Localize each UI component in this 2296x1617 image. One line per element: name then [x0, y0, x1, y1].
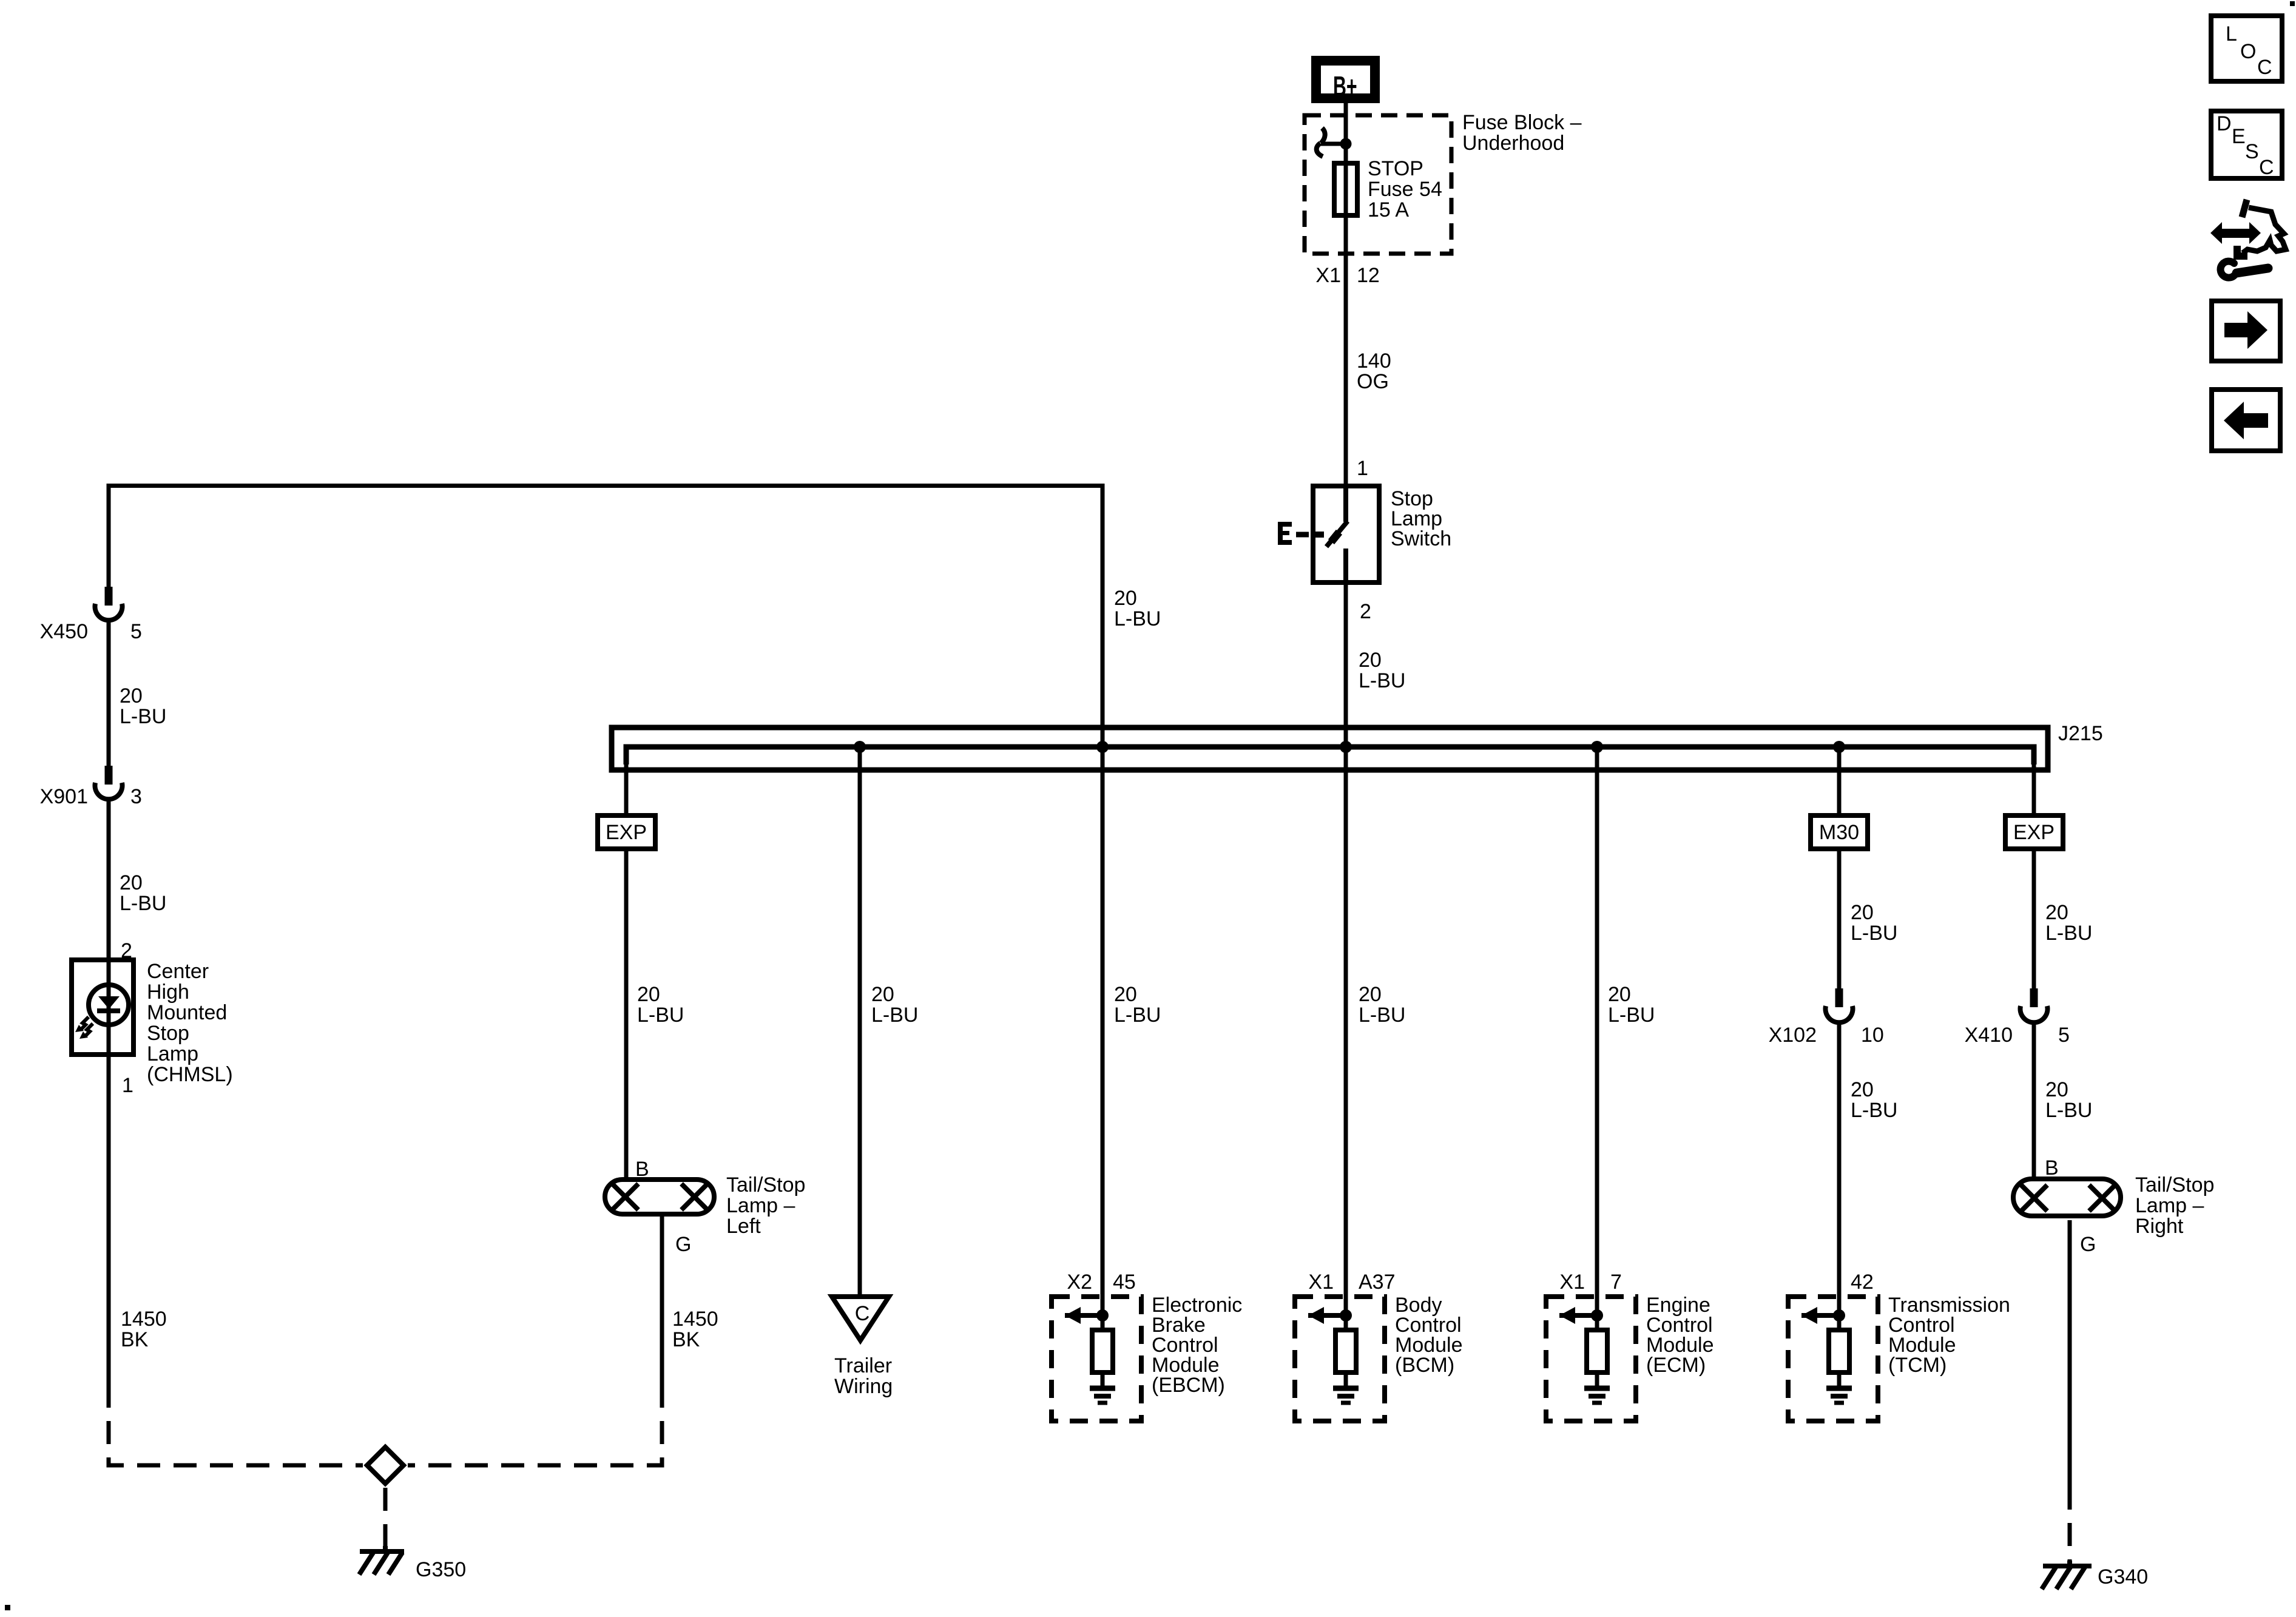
- svg-text:STOP: STOP: [1368, 157, 1423, 180]
- svg-text:L-BU: L-BU: [1851, 922, 1897, 945]
- svg-text:20: 20: [1608, 983, 1631, 1006]
- svg-text:(EBCM): (EBCM): [1152, 1374, 1225, 1397]
- svg-text:X102: X102: [1769, 1024, 1817, 1047]
- svg-text:L-BU: L-BU: [1114, 607, 1161, 630]
- svg-text:45: 45: [1113, 1271, 1136, 1294]
- svg-text:L-BU: L-BU: [2045, 1099, 2092, 1122]
- svg-text:C: C: [2257, 56, 2272, 79]
- svg-text:2: 2: [121, 939, 132, 962]
- svg-text:Left: Left: [726, 1215, 761, 1238]
- svg-text:L-BU: L-BU: [871, 1004, 918, 1027]
- svg-text:140: 140: [1357, 349, 1391, 373]
- svg-text:C: C: [855, 1302, 870, 1325]
- svg-text:O: O: [2240, 40, 2256, 63]
- svg-text:20: 20: [637, 983, 660, 1006]
- svg-text:(ECM): (ECM): [1646, 1354, 1706, 1377]
- svg-text:Fuse 54: Fuse 54: [1368, 178, 1442, 201]
- svg-text:G350: G350: [416, 1558, 466, 1581]
- svg-text:G340: G340: [2098, 1565, 2148, 1588]
- svg-text:X410: X410: [1965, 1024, 2013, 1047]
- svg-text:1450: 1450: [121, 1308, 167, 1331]
- svg-text:Mounted: Mounted: [147, 1001, 227, 1024]
- svg-text:EXP: EXP: [606, 821, 647, 844]
- svg-text:5: 5: [130, 620, 142, 643]
- svg-text:15 A: 15 A: [1368, 198, 1409, 221]
- svg-text:A37: A37: [1359, 1271, 1396, 1294]
- svg-text:L-BU: L-BU: [1359, 669, 1405, 692]
- svg-text:X901: X901: [40, 785, 88, 808]
- svg-text:3: 3: [130, 785, 142, 808]
- svg-text:X1: X1: [1315, 264, 1341, 287]
- svg-text:20: 20: [120, 684, 143, 707]
- svg-text:20: 20: [120, 871, 143, 894]
- svg-text:L-BU: L-BU: [1359, 1004, 1405, 1027]
- svg-text:20: 20: [2045, 901, 2068, 924]
- svg-text:E: E: [2232, 125, 2246, 148]
- svg-text:X450: X450: [40, 620, 88, 643]
- svg-text:7: 7: [1610, 1271, 1622, 1294]
- svg-text:20: 20: [1359, 983, 1382, 1006]
- svg-text:20: 20: [1114, 983, 1137, 1006]
- svg-text:S: S: [2245, 140, 2259, 163]
- svg-text:B+: B+: [1333, 72, 1357, 103]
- svg-text:5: 5: [2058, 1024, 2070, 1047]
- svg-text:Lamp: Lamp: [147, 1042, 198, 1065]
- svg-text:BK: BK: [121, 1328, 149, 1351]
- svg-text:D: D: [2217, 112, 2232, 135]
- svg-text:20: 20: [1851, 901, 1874, 924]
- svg-text:C: C: [2259, 156, 2274, 179]
- svg-text:Trailer: Trailer: [834, 1354, 892, 1377]
- svg-text:Center: Center: [147, 960, 209, 983]
- svg-text:(TCM): (TCM): [1888, 1354, 1947, 1377]
- svg-text:L-BU: L-BU: [120, 705, 166, 728]
- svg-text:L-BU: L-BU: [1608, 1004, 1655, 1027]
- svg-text:(BCM): (BCM): [1395, 1354, 1454, 1377]
- svg-text:B: B: [2045, 1156, 2059, 1180]
- svg-text:M30: M30: [1819, 821, 1859, 844]
- svg-text:Tail/Stop: Tail/Stop: [726, 1173, 805, 1197]
- svg-text:20: 20: [2045, 1078, 2068, 1101]
- svg-text:EXP: EXP: [2013, 821, 2055, 844]
- svg-text:BK: BK: [672, 1328, 700, 1351]
- svg-text:20: 20: [871, 983, 894, 1006]
- svg-text:1450: 1450: [672, 1308, 718, 1331]
- svg-text:Lamp –: Lamp –: [726, 1194, 795, 1217]
- svg-text:Switch: Switch: [1391, 527, 1451, 550]
- svg-text:2: 2: [1360, 600, 1371, 623]
- svg-text:X1: X1: [1308, 1271, 1334, 1294]
- svg-text:J215: J215: [2058, 722, 2103, 745]
- svg-text:20: 20: [1851, 1078, 1874, 1101]
- svg-text:(CHMSL): (CHMSL): [147, 1063, 233, 1086]
- svg-text:Underhood: Underhood: [1462, 132, 1564, 155]
- svg-text:Tail/Stop: Tail/Stop: [2135, 1173, 2214, 1197]
- svg-text:L-BU: L-BU: [637, 1004, 684, 1027]
- svg-text:Stop: Stop: [147, 1022, 189, 1045]
- svg-text:L-BU: L-BU: [2045, 922, 2092, 945]
- svg-text:10: 10: [1861, 1024, 1884, 1047]
- svg-text:OG: OG: [1357, 370, 1389, 393]
- svg-text:L-BU: L-BU: [1114, 1004, 1161, 1027]
- svg-text:High: High: [147, 981, 189, 1004]
- svg-text:1: 1: [1357, 457, 1368, 480]
- svg-text:L-BU: L-BU: [1851, 1099, 1897, 1122]
- svg-text:X1: X1: [1559, 1271, 1585, 1294]
- svg-text:L-BU: L-BU: [120, 892, 166, 915]
- svg-text:Fuse Block –: Fuse Block –: [1462, 111, 1582, 134]
- svg-text:42: 42: [1851, 1271, 1874, 1294]
- svg-text:X2: X2: [1067, 1271, 1092, 1294]
- svg-text:Lamp –: Lamp –: [2135, 1194, 2204, 1217]
- svg-text:G: G: [675, 1233, 691, 1256]
- svg-text:G: G: [2080, 1233, 2096, 1256]
- svg-text:12: 12: [1357, 264, 1380, 287]
- svg-text:20: 20: [1359, 649, 1382, 672]
- svg-text:Wiring: Wiring: [834, 1375, 893, 1398]
- svg-text:L: L: [2226, 22, 2237, 46]
- svg-text:Right: Right: [2135, 1215, 2184, 1238]
- svg-text:20: 20: [1114, 587, 1137, 610]
- svg-text:B: B: [635, 1158, 649, 1181]
- svg-text:1: 1: [122, 1074, 133, 1097]
